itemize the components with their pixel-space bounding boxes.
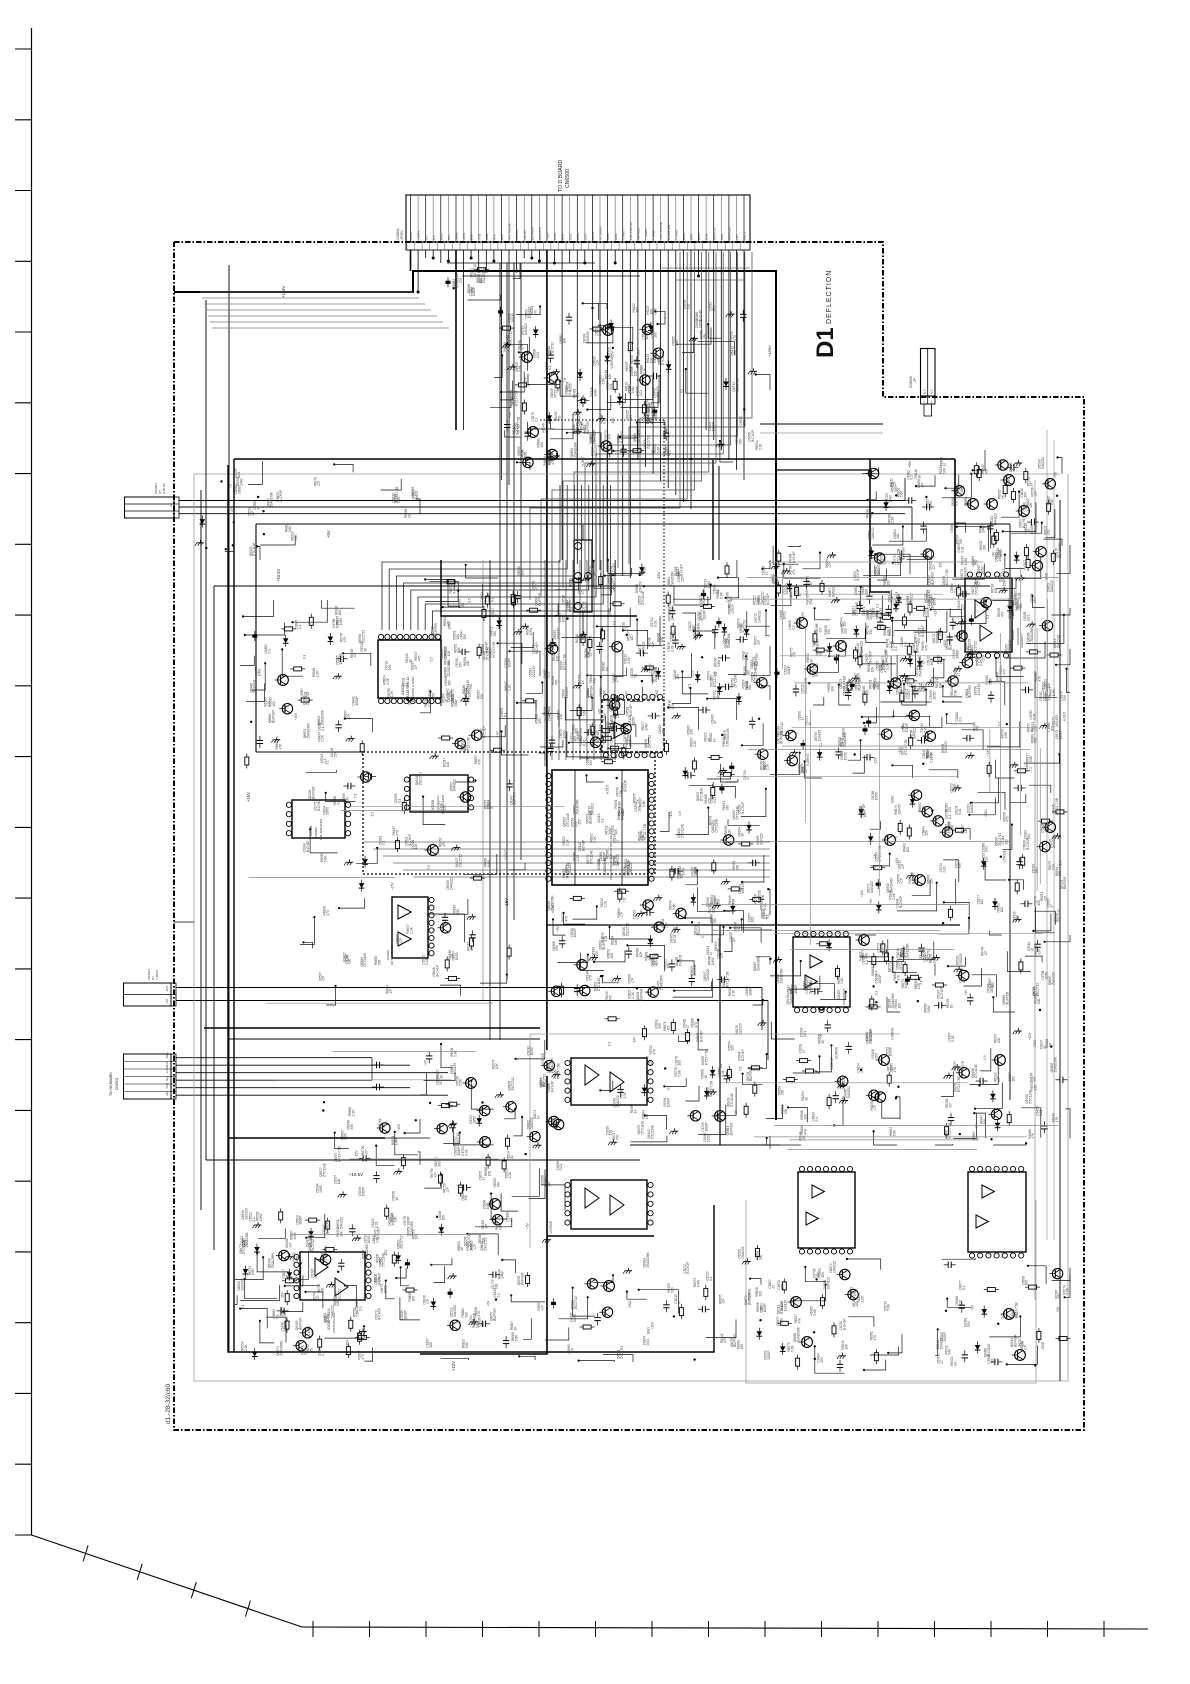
svg-text:-CP: -CP	[949, 1103, 953, 1109]
svg-text:HOR OUT: HOR OUT	[712, 226, 716, 240]
svg-text:-CP: -CP	[251, 510, 255, 516]
svg-text:25V: 25V	[481, 1320, 485, 1327]
svg-text:100: 100	[414, 844, 418, 850]
svg-text:2SA1036K: 2SA1036K	[550, 894, 554, 910]
svg-text:1SS133: 1SS133	[817, 730, 821, 742]
svg-text:2.2K: 2.2K	[244, 1343, 248, 1350]
svg-text:7.6: 7.6	[739, 1066, 743, 1071]
svg-text:GND: GND	[576, 233, 580, 241]
svg-text:BUFFER: BUFFER	[253, 679, 257, 692]
svg-text:-CP: -CP	[639, 588, 643, 594]
svg-text:10K: 10K	[727, 829, 731, 836]
svg-text:+5V: +5V	[326, 530, 331, 538]
svg-text:BUFFER: BUFFER	[1063, 876, 1067, 889]
svg-text:2SC2712: 2SC2712	[761, 591, 765, 605]
svg-text:1SS133: 1SS133	[741, 882, 745, 894]
svg-text:10/50: 10/50	[573, 1314, 577, 1322]
svg-text:2SC2712: 2SC2712	[697, 922, 701, 936]
svg-text:B-CH1P: B-CH1P	[306, 841, 310, 853]
svg-text:0.1: 0.1	[534, 417, 538, 422]
svg-text:47: 47	[1050, 904, 1054, 908]
svg-text:1SS133: 1SS133	[977, 684, 981, 696]
svg-text:1000P: 1000P	[763, 1303, 767, 1312]
svg-text:47K: 47K	[1047, 529, 1051, 536]
svg-text:-CP: -CP	[984, 951, 988, 957]
svg-text:7.6: 7.6	[819, 1034, 823, 1039]
svg-text:10K: 10K	[898, 1002, 902, 1009]
svg-text:330: 330	[736, 865, 740, 871]
svg-text:0.01: 0.01	[721, 1070, 725, 1076]
svg-text:330: 330	[378, 960, 382, 966]
svg-text:47: 47	[771, 1285, 775, 1289]
svg-text:0.5: 0.5	[598, 724, 602, 729]
svg-text:1/4W: 1/4W	[487, 860, 491, 867]
svg-text:BUFFER: BUFFER	[493, 1308, 497, 1321]
svg-text:330: 330	[346, 797, 350, 803]
svg-text:+9V: +9V	[975, 1123, 979, 1130]
svg-text:2F DRIVE: 2F DRIVE	[599, 226, 603, 240]
svg-text:0.1: 0.1	[948, 814, 952, 819]
svg-text:V PROT: V PROT	[621, 229, 625, 240]
svg-text:0.1: 0.1	[548, 365, 552, 370]
svg-text:B-CH1P: B-CH1P	[808, 982, 812, 994]
svg-text:0.01: 0.01	[374, 1221, 378, 1227]
svg-text:47K: 47K	[551, 458, 555, 465]
svg-text:-CP: -CP	[964, 828, 968, 834]
svg-text:-CP: -CP	[757, 640, 761, 646]
svg-text:MTZJ-7.5B: MTZJ-7.5B	[899, 954, 903, 970]
svg-text:0.1: 0.1	[483, 597, 487, 602]
svg-text:100: 100	[925, 830, 929, 836]
svg-text:+9V: +9V	[624, 690, 628, 697]
svg-text:1SS133: 1SS133	[241, 1279, 245, 1291]
svg-text:470: 470	[667, 1025, 671, 1031]
svg-text:5.6K: 5.6K	[514, 1334, 518, 1341]
svg-text:DTC114E: DTC114E	[252, 542, 256, 556]
svg-text:25V: 25V	[967, 1321, 971, 1328]
svg-text:BUFFER: BUFFER	[521, 1272, 525, 1285]
svg-text:1000P: 1000P	[889, 1047, 893, 1056]
svg-text:100: 100	[1000, 907, 1004, 913]
svg-text:7.6: 7.6	[353, 794, 357, 799]
svg-text:100: 100	[309, 1348, 313, 1354]
svg-text:+15V: +15V	[651, 1321, 655, 1329]
svg-text:N.C: N.C	[432, 234, 436, 240]
svg-text:+15V PULSE: +15V PULSE	[659, 222, 663, 240]
svg-text:+135V: +135V	[409, 231, 413, 240]
svg-text:10K: 10K	[614, 938, 618, 945]
svg-text:2SC2712: 2SC2712	[620, 1345, 624, 1359]
svg-text:GND: GND	[485, 233, 489, 241]
svg-text:1000P: 1000P	[1043, 692, 1047, 701]
svg-text:7.6: 7.6	[427, 865, 431, 870]
svg-text:N.C: N.C	[424, 234, 428, 240]
svg-text:470: 470	[1002, 669, 1006, 675]
svg-text:470: 470	[534, 310, 538, 316]
svg-text:100: 100	[843, 621, 847, 627]
svg-text:GND: GND	[984, 809, 988, 817]
svg-text:100: 100	[675, 340, 679, 346]
svg-text:TO D BOARD: TO D BOARD	[558, 160, 564, 192]
svg-text:0.1: 0.1	[764, 914, 768, 919]
svg-text:H CENTER: H CENTER	[667, 224, 671, 240]
svg-text:BUFFER: BUFFER	[729, 1122, 733, 1135]
svg-text:0.1: 0.1	[382, 841, 386, 846]
svg-text:-CP: -CP	[631, 978, 635, 984]
svg-text:DTC114E: DTC114E	[714, 819, 718, 833]
svg-text:+12V: +12V	[860, 889, 864, 897]
svg-text:25V: 25V	[555, 944, 559, 951]
svg-text:330: 330	[350, 1124, 354, 1130]
svg-text:B-CH1P: B-CH1P	[1022, 516, 1026, 528]
svg-text:100: 100	[1012, 1076, 1016, 1082]
svg-text:B-CH1P: B-CH1P	[535, 642, 539, 654]
svg-text:47: 47	[494, 614, 498, 618]
svg-text:10/50: 10/50	[367, 1235, 371, 1243]
svg-text:2.2K: 2.2K	[979, 659, 983, 666]
svg-text:-CP: -CP	[521, 344, 525, 350]
svg-text:BUFFER: BUFFER	[579, 727, 583, 740]
svg-text:-CP: -CP	[900, 878, 904, 884]
svg-text:2SC2712: 2SC2712	[418, 772, 422, 786]
svg-text:10K: 10K	[830, 685, 834, 692]
svg-text:1K: 1K	[629, 414, 633, 419]
svg-text:1000P: 1000P	[767, 1351, 771, 1360]
svg-text:DAN222: DAN222	[453, 1305, 457, 1317]
svg-text:1000P: 1000P	[1058, 730, 1062, 739]
svg-text:2SC2712: 2SC2712	[1056, 635, 1060, 649]
svg-text:1000P: 1000P	[990, 984, 994, 993]
svg-text:0.01: 0.01	[609, 384, 613, 390]
svg-text:47K: 47K	[478, 758, 482, 765]
svg-text:100: 100	[479, 278, 483, 284]
svg-text:25V: 25V	[874, 1052, 878, 1059]
svg-text:10K: 10K	[633, 358, 637, 365]
svg-text:100: 100	[487, 1171, 491, 1177]
svg-text:MTZJ-7.5B: MTZJ-7.5B	[957, 1077, 961, 1093]
svg-text:DAN222: DAN222	[826, 1277, 830, 1289]
svg-text:330: 330	[781, 1090, 785, 1096]
svg-text:0.01: 0.01	[943, 866, 947, 872]
svg-text:DAN222: DAN222	[847, 1086, 851, 1098]
svg-text:DTC114E: DTC114E	[593, 720, 597, 734]
svg-text:47K: 47K	[343, 636, 347, 643]
svg-text:-CP: -CP	[540, 1305, 544, 1311]
svg-text:100: 100	[994, 588, 998, 594]
svg-text:100: 100	[1023, 492, 1027, 498]
svg-text:10/50: 10/50	[783, 611, 787, 619]
svg-text:2.2K: 2.2K	[578, 636, 582, 643]
svg-text:GND: GND	[568, 233, 572, 241]
svg-text:100: 100	[678, 1060, 682, 1066]
svg-text:10K: 10K	[865, 952, 869, 959]
svg-text:-15V: -15V	[355, 1150, 359, 1158]
svg-text:H-BLK0: H-BLK0	[162, 483, 166, 494]
svg-text:1SS133: 1SS133	[799, 616, 803, 628]
svg-text:47: 47	[953, 529, 957, 533]
svg-text:100: 100	[958, 863, 962, 869]
svg-text:1/4W: 1/4W	[757, 896, 761, 903]
svg-text:3.1: 3.1	[303, 654, 307, 659]
svg-text:330: 330	[748, 685, 752, 691]
svg-text:1SS133: 1SS133	[594, 444, 598, 456]
svg-text:-CP: -CP	[288, 1243, 292, 1249]
svg-text:47: 47	[314, 1274, 318, 1278]
svg-text:3.1: 3.1	[1001, 1314, 1005, 1319]
svg-text:0.1: 0.1	[962, 1285, 966, 1290]
svg-text:470: 470	[667, 963, 671, 969]
svg-text:47: 47	[732, 938, 736, 942]
svg-text:+15RV: +15RV	[417, 231, 421, 240]
svg-text:-CP: -CP	[818, 628, 822, 634]
svg-text:10/50: 10/50	[530, 1047, 534, 1055]
svg-text:DTC114E: DTC114E	[974, 1064, 978, 1078]
svg-text:1000P: 1000P	[362, 1187, 366, 1196]
svg-text:0.01: 0.01	[284, 1325, 288, 1331]
svg-text:-CP: -CP	[921, 660, 925, 666]
svg-text:-CP: -CP	[484, 1224, 488, 1230]
svg-text:2.2K: 2.2K	[732, 989, 736, 996]
svg-text:1SS133: 1SS133	[453, 1063, 457, 1075]
svg-text:+9V: +9V	[496, 730, 500, 737]
svg-text:V.DRIVE: V.DRIVE	[891, 1027, 895, 1039]
svg-text:330: 330	[670, 1287, 674, 1293]
svg-text:10K: 10K	[864, 588, 868, 595]
svg-text:1/4W: 1/4W	[498, 1223, 502, 1230]
svg-text:GND: GND	[561, 233, 565, 241]
svg-text:47: 47	[700, 617, 704, 621]
svg-text:100: 100	[429, 1342, 433, 1348]
svg-text:B-CH1P: B-CH1P	[843, 1318, 847, 1330]
svg-text:CN6500: CN6500	[565, 169, 571, 188]
svg-text:2SC2712: 2SC2712	[1057, 909, 1061, 923]
svg-text:0.1: 0.1	[359, 1306, 363, 1311]
svg-text:10K: 10K	[540, 441, 544, 448]
svg-text:47: 47	[581, 590, 585, 594]
svg-text:10/50: 10/50	[745, 652, 749, 660]
svg-text:-CP: -CP	[932, 565, 936, 571]
svg-text:0.01: 0.01	[883, 558, 887, 564]
svg-text:+5V: +5V	[556, 925, 560, 932]
svg-text:2SA1036K: 2SA1036K	[550, 1057, 554, 1073]
svg-text:GND: GND	[1033, 1039, 1037, 1047]
svg-text:330: 330	[283, 1311, 287, 1317]
svg-text:B-CH1P: B-CH1P	[862, 804, 866, 816]
svg-text:-CP: -CP	[731, 609, 735, 615]
svg-text:GND: GND	[693, 866, 697, 874]
svg-text:0.1: 0.1	[397, 798, 401, 803]
svg-text:MTZJ-7.5B: MTZJ-7.5B	[563, 654, 567, 670]
svg-text:BUFFER: BUFFER	[842, 675, 846, 688]
svg-text:4P/GN: 4P/GN	[400, 230, 404, 240]
svg-text:B-CH1P: B-CH1P	[435, 965, 439, 977]
svg-text:VW VOD: VW VOD	[637, 227, 641, 240]
svg-text:10/50: 10/50	[880, 944, 884, 952]
svg-text:47K: 47K	[560, 713, 564, 720]
svg-text:2SC2712: 2SC2712	[484, 1237, 488, 1251]
svg-text:2.2K: 2.2K	[631, 991, 635, 998]
svg-text:-CP: -CP	[322, 976, 326, 982]
svg-text:10K: 10K	[821, 1271, 825, 1278]
svg-text:-15V: -15V	[873, 757, 877, 765]
svg-text:330: 330	[1033, 1085, 1037, 1091]
svg-text:0.01: 0.01	[951, 1035, 955, 1041]
svg-text:2.2K: 2.2K	[840, 977, 844, 984]
svg-text:0.01: 0.01	[603, 731, 607, 737]
svg-text:10K: 10K	[447, 650, 451, 657]
svg-text:B-CH1P: B-CH1P	[792, 551, 796, 563]
svg-text:DAN222: DAN222	[449, 878, 453, 890]
svg-text:1K: 1K	[364, 647, 368, 652]
svg-text:10K: 10K	[960, 486, 964, 493]
svg-text:2SC2712: 2SC2712	[473, 264, 477, 278]
svg-text:5.6K: 5.6K	[791, 1344, 795, 1351]
svg-text:3.1: 3.1	[607, 1042, 611, 1047]
svg-text:2SA1036K: 2SA1036K	[779, 967, 783, 983]
svg-text:2SA1036K: 2SA1036K	[646, 1251, 650, 1267]
svg-text:B-CH1P: B-CH1P	[377, 1227, 381, 1239]
svg-text:1/4W: 1/4W	[711, 958, 715, 965]
svg-text:0.01: 0.01	[1026, 615, 1030, 621]
svg-text:2SA1036K: 2SA1036K	[654, 666, 658, 682]
svg-text:1000P: 1000P	[309, 1238, 313, 1247]
svg-text:1SS133: 1SS133	[738, 1023, 742, 1035]
svg-text:-CP: -CP	[337, 800, 341, 806]
svg-text:1SS133: 1SS133	[963, 567, 967, 579]
svg-text:47K: 47K	[267, 700, 271, 707]
svg-text:1SS133: 1SS133	[528, 307, 532, 319]
svg-text:AKB+: AKB+	[165, 1051, 169, 1058]
svg-text:2.2K: 2.2K	[693, 740, 697, 747]
svg-text:0.1: 0.1	[954, 588, 958, 593]
svg-text:2SA1036K: 2SA1036K	[324, 1245, 328, 1261]
svg-text:10K: 10K	[639, 951, 643, 958]
svg-text:GND: GND	[1041, 1341, 1045, 1349]
svg-text:HPD: HPD	[690, 233, 694, 240]
svg-text:5.6K: 5.6K	[954, 688, 958, 695]
svg-text:47K: 47K	[279, 743, 283, 750]
svg-text:10K: 10K	[651, 640, 655, 647]
svg-text:47K: 47K	[652, 1048, 656, 1055]
svg-text:1SS133: 1SS133	[586, 331, 590, 343]
svg-text:DAN222: DAN222	[871, 527, 875, 539]
svg-text:5.6K: 5.6K	[521, 448, 525, 455]
svg-text:330: 330	[438, 1161, 442, 1167]
svg-text:100: 100	[990, 1358, 994, 1364]
svg-text:2.2K: 2.2K	[766, 763, 770, 770]
svg-text:MTZJ-7.5B: MTZJ-7.5B	[515, 391, 519, 407]
svg-text:100: 100	[461, 603, 465, 609]
svg-text:MTZJ-7.5B: MTZJ-7.5B	[492, 642, 496, 658]
svg-text:10/50: 10/50	[645, 331, 649, 339]
svg-text:25V: 25V	[962, 976, 966, 983]
svg-text:B-CH1P: B-CH1P	[903, 945, 907, 957]
svg-text:2SC2712: 2SC2712	[648, 735, 652, 749]
svg-text:+5V: +5V	[486, 1300, 490, 1307]
svg-text:MTZJ-7.5B: MTZJ-7.5B	[1055, 798, 1059, 814]
svg-text:BUFFER: BUFFER	[272, 710, 276, 723]
svg-text:MTZJ-7.5B: MTZJ-7.5B	[710, 1081, 714, 1097]
svg-text:-CP: -CP	[958, 1300, 962, 1306]
svg-text:DAN222: DAN222	[833, 1261, 837, 1273]
svg-text:2.2K: 2.2K	[616, 711, 620, 718]
svg-text:470: 470	[1006, 816, 1010, 822]
svg-text:2.2K: 2.2K	[712, 906, 716, 913]
svg-text:1K: 1K	[808, 721, 812, 726]
svg-text:2.2K: 2.2K	[410, 926, 414, 933]
svg-text:0.01: 0.01	[646, 1339, 650, 1345]
svg-text:1000P: 1000P	[794, 984, 798, 993]
svg-text:+9V: +9V	[869, 898, 873, 905]
svg-text:330: 330	[726, 805, 730, 811]
svg-text:470: 470	[1000, 612, 1004, 618]
svg-text:10/50: 10/50	[843, 752, 847, 760]
svg-text:V.DRIVE: V.DRIVE	[717, 686, 721, 698]
svg-text:1A098N: 1A098N	[314, 827, 318, 838]
svg-text:2SA1036K: 2SA1036K	[757, 955, 761, 971]
svg-text:2SA1036K: 2SA1036K	[573, 441, 577, 457]
svg-text:47: 47	[482, 1177, 486, 1181]
svg-text:IC6306: IC6306	[309, 825, 313, 836]
svg-text:-CP: -CP	[434, 1172, 438, 1178]
svg-text:+5V: +5V	[1054, 471, 1058, 478]
svg-text:2SC2712: 2SC2712	[361, 630, 365, 644]
svg-text:100: 100	[628, 386, 632, 392]
svg-text:100: 100	[442, 1215, 446, 1221]
svg-text:1000P: 1000P	[472, 287, 476, 296]
svg-text:RGB AFC: RGB AFC	[538, 226, 542, 240]
svg-text:+15V: +15V	[651, 447, 655, 455]
svg-text:100: 100	[654, 332, 658, 338]
svg-text:+9V: +9V	[964, 989, 968, 996]
svg-text:GND: GND	[583, 233, 587, 241]
svg-text:47K: 47K	[649, 1059, 653, 1066]
svg-text:DTC114E: DTC114E	[700, 788, 704, 802]
svg-text:1/4W: 1/4W	[339, 618, 343, 625]
svg-text:1000P: 1000P	[704, 1122, 708, 1131]
svg-text:Y SAW*: Y SAW*	[652, 228, 656, 240]
svg-text:2SC2712: 2SC2712	[1035, 983, 1039, 997]
svg-text:330: 330	[469, 684, 473, 690]
svg-text:1/4W: 1/4W	[1052, 689, 1056, 696]
svg-text:+9V: +9V	[734, 1109, 738, 1116]
svg-text:V SAW-: V SAW-	[674, 229, 678, 240]
svg-text:1/4W: 1/4W	[717, 660, 721, 667]
svg-text:H.OUT: H.OUT	[504, 850, 508, 860]
svg-text:0.5: 0.5	[983, 1055, 987, 1060]
svg-text:100: 100	[272, 701, 276, 707]
svg-text:-CP: -CP	[506, 346, 510, 352]
svg-text:1000P: 1000P	[787, 665, 791, 674]
svg-text:0.01: 0.01	[803, 1031, 807, 1037]
svg-text:DAN222: DAN222	[642, 641, 646, 653]
svg-text:1000P: 1000P	[585, 602, 589, 611]
svg-text:5.6K: 5.6K	[656, 446, 660, 453]
svg-text:1SS133: 1SS133	[948, 822, 952, 834]
svg-text:100: 100	[243, 1240, 247, 1246]
svg-text:DTC114E: DTC114E	[681, 824, 685, 838]
svg-text:47: 47	[1030, 947, 1034, 951]
svg-text:0.01: 0.01	[1033, 713, 1037, 719]
svg-text:25V: 25V	[1063, 694, 1067, 701]
svg-text:100: 100	[555, 656, 559, 662]
svg-text:470: 470	[379, 1258, 383, 1264]
svg-text:+15-DN: +15-DN	[515, 230, 519, 240]
svg-text:1000P: 1000P	[613, 583, 617, 592]
svg-text:IC6304: IC6304	[431, 799, 435, 810]
svg-text:-CP: -CP	[977, 580, 981, 586]
svg-text:N.C: N.C	[930, 389, 934, 394]
